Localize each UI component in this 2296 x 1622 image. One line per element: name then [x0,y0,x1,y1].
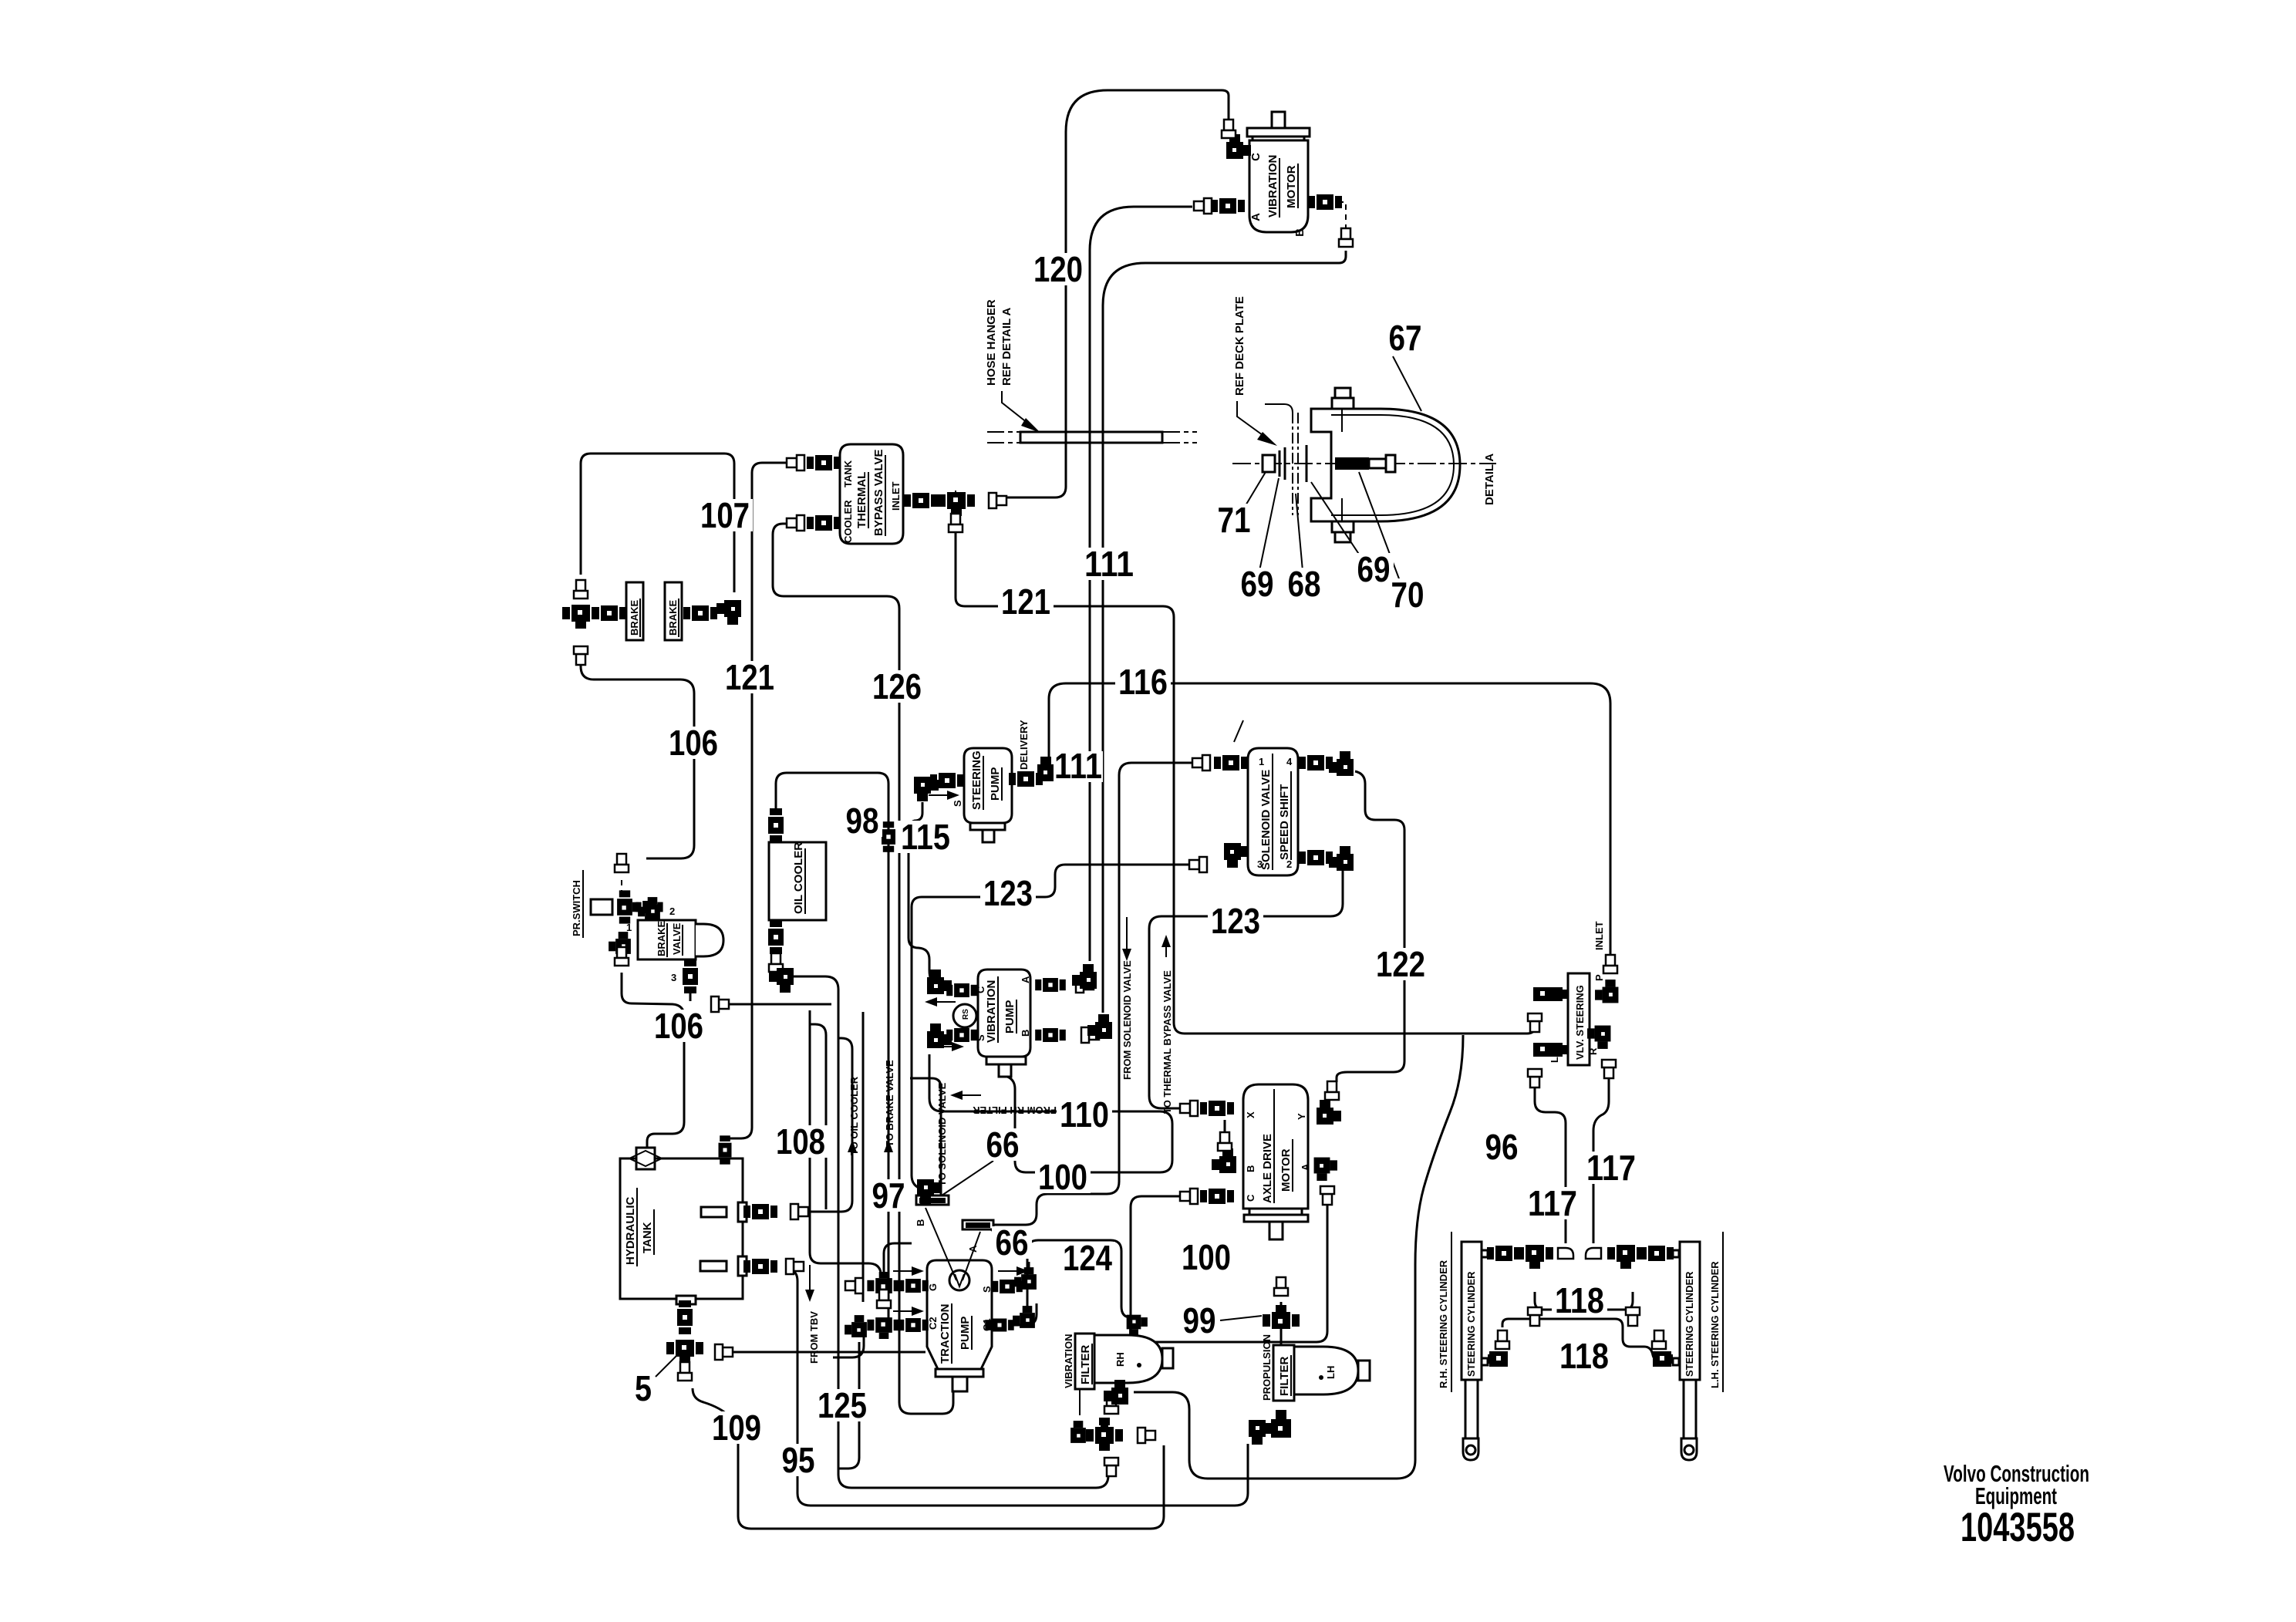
svg-text:B: B [1293,228,1306,237]
label to thermal bypass valve [1161,935,1173,1114]
node label 106 bottom [651,1006,706,1046]
svg-text:STEERING CYLINDER: STEERING CYLINDER [1465,1271,1477,1377]
node label 124 [1060,1238,1115,1278]
fitting straight at tank port [807,455,841,470]
fitting plug above Y [1325,1081,1339,1100]
fitting elbow port2 [1329,846,1354,871]
node label 126 [869,666,925,706]
wire hose 121 thermal bypass inlet tee to steering valve top plug [956,511,1535,1034]
brake valve V3 [626,905,723,983]
svg-text:66: 66 [996,1222,1029,1263]
svg-text:STEERING CYLINDER: STEERING CYLINDER [1684,1271,1695,1377]
svg-text:R.H. STEERING CYLINDER: R.H. STEERING CYLINDER [1438,1259,1449,1388]
fitting plug port1 [1192,755,1210,771]
fitting elbow left of cross [1070,1421,1093,1443]
fitting elbow at filter inlet 124 [1127,1315,1148,1336]
node label 110 [1057,1094,1112,1135]
wire brake valve port3 to oil cooler return line [690,961,831,1004]
arrow from rh filter [950,1091,981,1100]
svg-text:FROM SOLENOID VALVE: FROM SOLENOID VALVE [1121,960,1133,1080]
node label 95 [778,1440,818,1480]
svg-text:MOTOR: MOTOR [1279,1148,1293,1192]
pr.switch S1 [571,870,612,938]
node label 98 [842,801,882,841]
node label 100 upper [1035,1157,1091,1197]
wire vertical braid line [810,1024,826,1209]
svg-text:106: 106 [669,723,718,763]
svg-text:LH: LH [1325,1366,1337,1379]
fitting straight vib pump A [1035,978,1066,992]
fitting straight vib pump B [1035,1028,1066,1042]
leader 5 [656,1354,679,1377]
wire hose 117 left steering valve L to RH cylinder tee [1535,1081,1566,1243]
svg-text:L.H. STEERING CYLINDER: L.H. STEERING CYLINDER [1709,1261,1721,1388]
svg-text:VIBRATION: VIBRATION [1063,1334,1074,1388]
svg-text:106: 106 [654,1006,703,1046]
wire hose 121 thermal bypass tank port to hydraulic tank top [728,463,788,1138]
fitting plug above C2 tee [877,1290,891,1308]
fitting plug right of cross [1138,1428,1155,1443]
svg-text:122: 122 [1376,944,1425,984]
leader 69a [1259,478,1279,571]
fitting straight vib pump C [946,983,977,997]
fitting straight at inlet port [904,493,938,508]
fitting elbow left below propulsion [1249,1420,1273,1445]
fitting straight solenoid port2 [1299,850,1333,865]
wire stub S elbow up [1028,1262,1030,1268]
node label 68 [1284,564,1324,604]
svg-text:Y: Y [1296,1113,1307,1120]
fitting elbow B up [1087,1014,1112,1039]
fitting straight at cooler port [807,515,841,531]
wire hose 106 brake valve port1 down to tank connector [622,973,684,1148]
fitting elbow L [1533,1043,1569,1063]
node label 118 upper [1552,1280,1607,1320]
fitting elbow top-left vlv [1533,987,1569,1001]
fitting elbow P [1593,974,1618,1003]
arrow at C2 [893,1307,924,1316]
fitting elbow solenoid port3 [1224,843,1249,868]
leader 67 [1393,356,1421,411]
svg-text:96: 96 [1485,1127,1519,1167]
wire G tee top stub [884,1243,912,1274]
wire hose 99 propulsion filter to axle drive [1280,1302,1283,1350]
svg-text:107: 107 [700,495,750,535]
leader 66 to A [963,1232,980,1280]
label hose hanger ref detail A [985,299,1040,433]
wire hose 95 hydraulic tank lower port to propulsion filter tee [790,1270,1248,1506]
fitting elbow left of S [914,777,939,801]
fitting stub lh cyl top [1673,1250,1679,1257]
fitting tee above propulsion filter [1263,1305,1300,1329]
rh steering cylinder C1 [1438,1232,1482,1460]
fitting banjo B above traction [916,1195,949,1205]
label from tbv [805,1265,820,1364]
svg-text:110: 110 [1060,1094,1109,1135]
svg-text:98: 98 [846,801,879,841]
svg-text:G: G [927,1283,939,1291]
svg-text:PUMP: PUMP [1003,1000,1017,1034]
svg-text:68: 68 [1288,564,1321,604]
fitting top tank [719,1135,732,1164]
node label 107 [697,495,753,535]
svg-text:115: 115 [901,817,950,857]
fitting tee pr.switch [617,890,639,923]
fitting plug axle C [1180,1189,1198,1204]
svg-text:PUMP: PUMP [989,767,1002,801]
svg-text:SPEED SHIFT: SPEED SHIFT [1278,784,1291,860]
svg-text:DETAIL A: DETAIL A [1483,454,1496,505]
svg-text:123: 123 [1211,901,1260,941]
svg-text:BRAKE: BRAKE [629,599,640,636]
wire hose 123 left vibration pump area to solenoid valve port3 [912,865,1191,1189]
label ref deck plate [1233,296,1277,446]
fitting elbow R [1587,1026,1610,1055]
fitting plug tank port [787,455,804,470]
fitting plug below top-left elbow [1528,1013,1542,1032]
fitting elbow brake2 [716,600,741,625]
fitting elbow axle Y [1317,1100,1341,1125]
fitting plug right of B [1081,1027,1099,1043]
wire hose 118 lower RH bottom port to LH bottom port [1502,1319,1654,1357]
node label 100 lower [1178,1237,1234,1277]
svg-text:HYDRAULIC: HYDRAULIC [624,1197,637,1265]
arrow into S [929,791,959,800]
fitting plug above cross [1104,1395,1118,1414]
svg-text:109: 109 [712,1408,761,1448]
svg-text:125: 125 [818,1385,867,1425]
fitting plug below L [1528,1069,1542,1088]
fitting plug below rh tee [1528,1307,1542,1326]
leader 68 [1296,494,1303,571]
node label 71 [1214,500,1254,540]
wire hose 96 steering return to vibration filter cross [1134,1035,1463,1479]
svg-text:RS: RS [962,1009,970,1020]
svg-text:THERMAL: THERMAL [855,472,868,528]
svg-text:116: 116 [1118,662,1168,702]
fitting black block propulsion [1271,1410,1291,1438]
svg-text:A: A [1300,1163,1311,1171]
svg-text:TANK: TANK [842,460,854,487]
svg-text:66: 66 [986,1125,1020,1165]
fitting elbow right of S [1014,1267,1037,1290]
fitting white elbow 117L into rh tee [1558,1248,1573,1259]
svg-text:A: A [1020,976,1031,983]
wire hose 124 traction S up loop [1027,1240,1131,1317]
svg-text:123: 123 [983,873,1033,913]
node label 108 [773,1121,828,1162]
wire hose tank upper port toward traction area [799,1038,852,1212]
wire pr.switch dashed stem [621,880,622,895]
node label 116 [1115,662,1171,702]
fitting plug above propulsion tee [1274,1277,1288,1296]
fitting plug above C [1222,120,1236,138]
arrow at S [998,1266,1029,1276]
fitting straight lh cyl top [1640,1246,1674,1261]
fitting small right of tee [636,901,663,913]
fitting straight traction C1 [985,1319,1013,1332]
svg-text:REF DETAIL A: REF DETAIL A [1000,307,1013,386]
fitting elbow A up [1072,964,1097,989]
label from solenoid valve [1121,917,1133,1080]
fitting plug steering inlet [1603,955,1617,973]
wire hose 98 oil cooler top to brake valve line [776,773,888,1327]
fitting tee lh [1607,1245,1644,1269]
fitting straight solenoid port1 [1214,755,1248,771]
node label 67 [1385,318,1425,358]
wire leader 99 [1220,1316,1262,1320]
lh steering cylinder C2 [1680,1232,1723,1460]
fitting plug below cross [1104,1458,1118,1476]
vibration filter F1 [1063,1334,1173,1389]
svg-text:B: B [915,1219,926,1226]
svg-text:BYPASS VALVE: BYPASS VALVE [872,449,885,536]
svg-text:70: 70 [1391,575,1424,615]
wire hose 115 steering pump S to vibration pump C [909,802,935,983]
node label 120 [1030,249,1086,289]
hydraulic tank T1 [620,1148,747,1304]
node label 99 [1179,1300,1219,1340]
svg-text:TO THERMAL BYPASS VALVE: TO THERMAL BYPASS VALVE [1161,970,1173,1114]
svg-text:117: 117 [1586,1148,1636,1188]
fitting plug X [1180,1101,1198,1116]
svg-text:FROM RH FILTER: FROM RH FILTER [973,1104,1057,1116]
fitting plug below inlet tee [949,514,963,532]
fitting plug below lh tee [1626,1307,1640,1326]
svg-text:124: 124 [1063,1238,1112,1278]
arrow at S [933,1042,964,1051]
node label 117 left [1525,1183,1580,1223]
fitting elbow brake valve port1 [609,932,631,954]
wire hose 116 steering pump delivery to steering valve inlet [1049,683,1610,956]
fitting elbow oil cooler return [769,968,794,993]
svg-text:C: C [1249,153,1263,161]
wire hose solenoid valve port1 down to traction pump A [993,763,1194,1225]
wire hose 107 loop brake tee to brake 2 [581,454,734,592]
fitting elbow vib pump C [927,969,952,994]
leader solenoid [1234,720,1243,742]
svg-text:L: L [1549,1057,1560,1063]
svg-text:TANK: TANK [641,1222,654,1253]
fitting straight brake valve port3 vertical [683,959,698,993]
svg-text:TO OIL COOLER: TO OIL COOLER [848,1076,860,1155]
svg-text:1043558: 1043558 [1961,1505,2075,1550]
svg-text:DELIVERY: DELIVERY [1018,720,1030,770]
fitting elbow brake valve port2 [638,897,660,919]
svg-text:121: 121 [725,657,774,697]
wire hose 125 traction C2 down to bottom run [838,1342,859,1469]
fitting straight traction S [992,1280,1023,1293]
fitting elbow axle A [1314,1158,1337,1181]
wire hose 123 right solenoid valve port2 to axle drive X [1149,867,1343,1108]
fitting plug above tee [574,580,588,599]
svg-text:R: R [1587,1047,1599,1055]
svg-text:X: X [1245,1111,1256,1118]
svg-text:FROM TBV: FROM TBV [808,1311,820,1364]
fitting stub rh cyl top [1482,1250,1488,1257]
svg-text:REF DECK PLATE: REF DECK PLATE [1233,296,1246,396]
fitting straight traction G [898,1279,929,1293]
fitting stub rh cyl bottom [1482,1358,1488,1365]
fitting straight tank upper port [743,1204,777,1219]
svg-text:5: 5 [635,1368,652,1408]
svg-text:126: 126 [872,666,922,706]
brake box left [626,582,643,640]
svg-text:3: 3 [671,972,676,983]
fitting stub lh cyl bottom [1673,1358,1679,1365]
fitting elbow C2 far left [845,1315,867,1337]
vibration pump P3 [953,969,1031,1077]
fitting plug right of inlet tee [989,493,1006,508]
fitting straight at motor B [1308,194,1342,210]
fitting plug left of A [1194,198,1212,214]
fitting vertical below oil cooler [768,920,784,954]
fitting elbow B up-left [917,1179,942,1204]
svg-text:121: 121 [1001,582,1050,622]
svg-text:1: 1 [1259,756,1264,767]
wire stub above axle B plug [1224,1120,1226,1132]
hose hanger bar [1020,432,1162,443]
svg-text:STEERING: STEERING [970,750,983,810]
svg-text:PUMP: PUMP [959,1317,972,1350]
fitting plug below B [1339,228,1353,247]
svg-text:VIBRATION: VIBRATION [985,980,998,1043]
fitting straight axle X [1200,1101,1234,1116]
node label 96 [1482,1127,1522,1167]
wire hose 108 oil cooler bottom to vibration filter cross [791,976,1108,1488]
leader 66a to B banjo [939,1161,993,1197]
thermal bypass valve V1 [840,444,903,544]
vibration motor U1 [1247,112,1310,237]
fitting straight brake2 right [683,605,717,621]
svg-text:COOLER: COOLER [842,500,854,543]
node label 70 [1387,575,1428,615]
wire hose 120 vibration motor C to thermal bypass inlet tee [995,90,1229,497]
node label 97 [868,1175,909,1216]
svg-text:A: A [1249,213,1263,221]
fitting plug below port1 [615,947,629,966]
svg-text:118: 118 [1555,1280,1604,1320]
node label 125 [814,1385,870,1425]
node label 121 left [722,657,777,697]
fitting plug below R [1602,1060,1616,1078]
fitting plug tank upper [791,1204,808,1219]
svg-text:1: 1 [626,922,632,933]
fitting elbow above cross plug [1104,1380,1128,1404]
node label 121 top [998,582,1054,622]
svg-text:FILTER: FILTER [1079,1344,1092,1384]
label to oil cooler [848,1076,860,1155]
fitting straight at delivery [1009,771,1043,787]
fitting elbow vib pump S [927,1023,952,1048]
wire C2 tee left elbow down [833,1330,864,1357]
svg-text:69: 69 [1241,564,1274,604]
wire hose hanger dash-dot line [987,432,1197,443]
fitting plug cooler port [787,515,804,531]
leader 70 [1359,472,1400,581]
svg-text:INLET: INLET [890,481,902,511]
svg-text:BRAKE: BRAKE [667,599,679,636]
fitting straight brake1 left [592,605,626,621]
svg-text:OIL COOLER: OIL COOLER [792,842,805,914]
fitting tee left of brakes [562,605,599,629]
fitting plug below oil cooler [769,953,783,972]
node label 111 top [1081,544,1137,584]
svg-text:C: C [1245,1194,1256,1202]
wire from tbv vertical to traction G tee [810,1010,882,1277]
svg-text:99: 99 [1183,1300,1216,1340]
svg-text:B: B [1020,1030,1031,1037]
fitting elbow at motor C [1226,134,1251,159]
svg-text:100: 100 [1182,1237,1231,1277]
wire filter label stem [1079,1389,1081,1415]
wire hoses crossing hanger [1066,430,1103,445]
svg-text:TRACTION: TRACTION [939,1304,952,1364]
steering pump P2 [952,720,1030,842]
svg-text:A: A [967,1245,979,1253]
wire to-solenoid-valve vertical [910,1078,941,1203]
wire suction line tank bottom tee to traction pump [723,1351,925,1354]
label to solenoid valve [936,1082,948,1186]
wire hose 110 vibration pump S to from-rh-filter line [929,1054,1172,1172]
node label 69 left [1237,564,1277,604]
wire hose 122 solenoid valve port4 to axle drive Y [1337,771,1404,1082]
fitting straight tank lower port [743,1259,777,1274]
fitting plug below tee5 [678,1362,692,1381]
fitting straight below tank [677,1300,693,1334]
fitting elbow lh bottom port [1652,1330,1673,1367]
svg-text:VIBRATION: VIBRATION [1266,155,1279,218]
wire dashed stem inlet tee [955,491,956,511]
svg-text:97: 97 [872,1175,905,1216]
fitting vertical above oil cooler [768,808,784,842]
fitting plug left of G tee [845,1278,863,1293]
fitting plug right of A [1076,977,1094,993]
wire hose 109 tank bottom tee to vibration filter cross [693,1388,1164,1529]
axle drive motor M1 [1243,1084,1311,1239]
fitting tee 5 below tank [666,1340,703,1364]
node label 69 right [1354,549,1394,589]
fitting plug below tee [574,646,588,665]
node label 123 right [1208,901,1263,941]
svg-text:B: B [1245,1165,1256,1172]
svg-text:FILTER: FILTER [1278,1356,1291,1396]
wire hose 100 axle drive C around motor to Y side [1131,1196,1327,1342]
fitting straight solenoid port4 [1299,755,1333,771]
fitting elbow port4 [1329,751,1354,776]
wire to-oil-cooler vertical from G tee [862,1012,865,1302]
fitting elbow rh bottom port [1488,1330,1509,1367]
svg-text:67: 67 [1389,318,1422,358]
fitting on 98 line [882,821,895,852]
node label 106 top [666,723,721,763]
wire hose 106 brake tee down to pr.switch line [581,652,694,858]
fitting plug port3 angled [711,996,729,1012]
node label 118 lower [1556,1336,1612,1376]
node label 109 [709,1408,764,1448]
leader B banjo to circle [925,1208,956,1280]
svg-text:111: 111 [1054,746,1102,786]
label to brake valve [884,1060,895,1152]
svg-text:100: 100 [1038,1157,1087,1197]
fitting small right of tee5 [715,1344,733,1360]
svg-text:118: 118 [1559,1336,1609,1376]
svg-text:HOSE HANGER: HOSE HANGER [985,299,998,386]
fitting straight vib pump S [946,1028,977,1042]
wire hose 111 vibration motor A to vibration pump A [1090,207,1192,961]
node label 117 right [1583,1148,1639,1188]
node label 66 upper [983,1125,1023,1165]
